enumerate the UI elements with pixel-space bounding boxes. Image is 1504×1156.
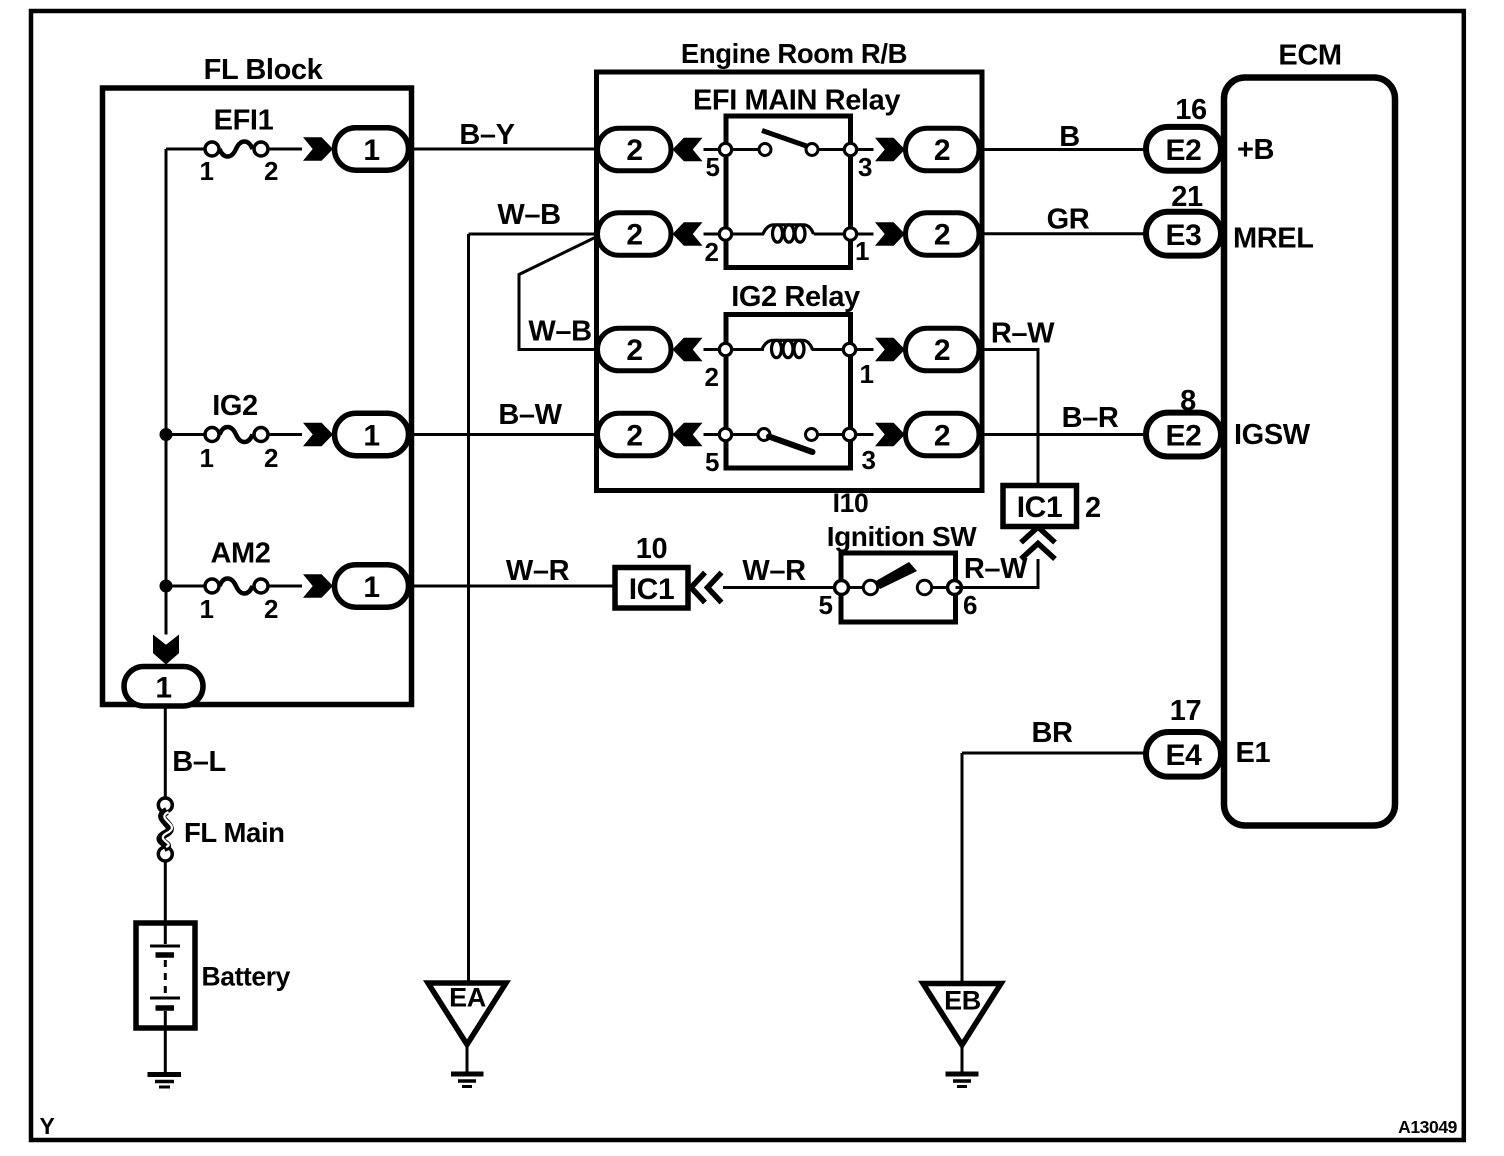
svg-text:6: 6: [963, 590, 977, 620]
connector 1 (AM2 row): [335, 565, 409, 607]
svg-text:2: 2: [264, 594, 278, 624]
svg-text:ECM: ECM: [1278, 40, 1341, 72]
wire W-R ignition switch to IC1: [723, 555, 841, 588]
connector 2 (row4 left): [598, 413, 672, 456]
svg-text:IC1: IC1: [1017, 491, 1063, 524]
svg-text:2: 2: [704, 237, 718, 267]
svg-text:5: 5: [705, 152, 719, 182]
wire row1 left pin: [704, 148, 726, 151]
wire row3 right pin: [855, 348, 874, 351]
connector E3 pin 21: [1146, 181, 1221, 256]
node label Y: [40, 1113, 55, 1139]
svg-text:5: 5: [705, 447, 719, 477]
svg-text:EFI MAIN Relay: EFI MAIN Relay: [693, 85, 900, 117]
wire R-W ignition to IC1 pin 2: [956, 553, 1039, 588]
IG2 relay contact pins 5-3: [705, 428, 876, 477]
fuse EFI1: [166, 105, 302, 187]
svg-text:B–R: B–R: [1062, 402, 1119, 434]
ignition switch SW1: [818, 521, 977, 622]
wire battery to ground: [164, 1028, 167, 1072]
pin name MREL: [1233, 223, 1314, 255]
ECM box: [1224, 40, 1395, 826]
arrow into connector 1 (IG2): [303, 423, 333, 446]
svg-text:E4: E4: [1166, 739, 1203, 772]
svg-text:21: 21: [1171, 181, 1203, 213]
svg-text:1: 1: [363, 420, 379, 453]
connector E2 pin 8: [1146, 385, 1221, 457]
connector 2 (row3 right): [906, 328, 980, 371]
svg-text:BR: BR: [1031, 717, 1073, 749]
svg-text:FL Block: FL Block: [204, 54, 324, 86]
svg-text:1: 1: [155, 672, 171, 705]
node label A13049: [1398, 1117, 1458, 1137]
node junction AM2: [160, 580, 173, 593]
svg-text:1: 1: [199, 156, 213, 186]
junction connector IC1 pin 10: [615, 533, 688, 608]
svg-text:1: 1: [363, 134, 379, 167]
wire B-Y: [409, 119, 598, 151]
svg-text:16: 16: [1175, 94, 1207, 126]
svg-text:A13049: A13049: [1398, 1117, 1458, 1137]
ground EB: [923, 984, 1001, 1087]
svg-text:B–Y: B–Y: [459, 119, 514, 151]
connector 1 (EFI1 row): [335, 128, 409, 170]
svg-text:IC1: IC1: [629, 573, 675, 606]
wire BR to EB: [962, 717, 1146, 984]
svg-text:Y: Y: [40, 1113, 55, 1139]
wire B-W: [409, 399, 598, 435]
wire row2 left pin: [704, 233, 726, 236]
connector E4 pin 17: [1146, 695, 1221, 777]
svg-text:2: 2: [704, 362, 718, 392]
svg-text:E2: E2: [1166, 134, 1202, 167]
svg-text:IG2: IG2: [212, 390, 258, 422]
wire FL Main to battery: [164, 861, 167, 923]
arrow into connector 2 (row2 right): [875, 222, 905, 245]
connector 1 (IG2 row): [335, 413, 409, 455]
ground EA: [428, 983, 506, 1087]
IG2 relay coil pins 2-1: [704, 340, 873, 392]
svg-text:+B: +B: [1237, 134, 1274, 166]
svg-text:W–R: W–R: [742, 555, 806, 587]
wire B-L: [165, 706, 225, 798]
wire row1 right pin: [856, 148, 874, 151]
arrow into connector 1 (EFI1): [303, 137, 333, 160]
node junction IG2: [160, 428, 173, 441]
wire GR: [979, 204, 1146, 236]
connector 2 (row1 right): [906, 128, 980, 171]
FL Block box: [103, 54, 412, 705]
svg-text:17: 17: [1170, 695, 1201, 727]
svg-text:W–B: W–B: [497, 199, 560, 231]
connector 1 (battery feed): [124, 667, 203, 707]
arrow chevrons into IC1 pin 2: [1021, 527, 1055, 559]
arrow into connector 2 (row1 left): [673, 138, 703, 161]
fuse IG2: [166, 390, 302, 473]
svg-text:5: 5: [818, 590, 832, 620]
svg-text:FL Main: FL Main: [184, 817, 285, 848]
wire FL bus vertical: [165, 149, 168, 635]
fuse AM2: [166, 538, 302, 625]
svg-text:EB: EB: [944, 986, 981, 1016]
svg-text:MREL: MREL: [1233, 223, 1314, 255]
svg-text:B: B: [1059, 121, 1080, 153]
svg-text:2: 2: [626, 420, 642, 453]
svg-text:Engine Room R/B: Engine Room R/B: [681, 38, 907, 69]
connector 2 (row1 left): [598, 128, 672, 171]
EFI MAIN relay coil pins 2-1: [704, 225, 869, 267]
arrow into connector 2 (row1 right): [875, 138, 905, 161]
pin name E1: [1236, 737, 1271, 769]
wire row4 right pin: [855, 433, 874, 436]
junction connector IC1 pin 2: [1003, 486, 1101, 527]
svg-text:B–L: B–L: [172, 746, 226, 778]
wire B-R: [979, 402, 1146, 435]
wire row3 left pin: [704, 348, 726, 351]
svg-text:B–W: B–W: [498, 399, 562, 431]
wire B: [979, 121, 1146, 153]
pin name +B: [1237, 134, 1274, 166]
svg-text:R–W: R–W: [964, 553, 1028, 585]
arrow into connector 2 (row2 left): [673, 222, 703, 245]
svg-text:EFI1: EFI1: [214, 105, 274, 137]
svg-text:1: 1: [855, 236, 869, 266]
wire row4 left pin: [704, 433, 726, 436]
svg-text:E3: E3: [1166, 219, 1202, 252]
EFI MAIN Relay box: [693, 85, 900, 268]
wire W-B link row2 to row3: [519, 237, 598, 350]
fusible link FL Main: [158, 798, 284, 861]
svg-text:8: 8: [1180, 385, 1196, 417]
connector E2 pin 16: [1146, 94, 1221, 171]
svg-text:3: 3: [858, 152, 872, 182]
EFI MAIN relay contact pins 5-3: [705, 131, 872, 183]
svg-text:R–W: R–W: [991, 318, 1055, 350]
svg-text:Battery: Battery: [202, 962, 291, 992]
connector 2 (row3 left): [598, 328, 672, 371]
wire W-R from AM2 to IC1: [409, 555, 616, 587]
svg-text:2: 2: [626, 219, 642, 252]
connector 2 (row2 left): [598, 213, 672, 256]
svg-text:W–R: W–R: [506, 555, 570, 587]
svg-text:IG2 Relay: IG2 Relay: [731, 281, 860, 313]
arrow into connector 2 (row4 left): [673, 423, 703, 446]
svg-text:2: 2: [934, 134, 950, 167]
svg-text:1: 1: [199, 443, 213, 473]
wire row2 right pin: [856, 233, 874, 236]
wire W-B to EA: [469, 199, 598, 983]
svg-text:1: 1: [859, 359, 873, 389]
svg-text:3: 3: [861, 445, 875, 475]
svg-text:Ignition SW: Ignition SW: [827, 521, 978, 552]
arrow into connector 2 (row4 right): [875, 423, 905, 446]
svg-text:2: 2: [934, 219, 950, 252]
arrow into connector 1 (AM2): [303, 574, 333, 597]
pin name IGSW: [1234, 419, 1311, 451]
svg-text:E2: E2: [1166, 420, 1202, 453]
Engine Room R/B box: [597, 38, 983, 518]
svg-text:2: 2: [1085, 492, 1101, 524]
svg-text:2: 2: [934, 420, 950, 453]
svg-text:E1: E1: [1236, 737, 1271, 769]
svg-text:IGSW: IGSW: [1234, 419, 1311, 451]
svg-text:AM2: AM2: [210, 538, 270, 570]
svg-text:I10: I10: [833, 488, 869, 518]
svg-text:2: 2: [626, 134, 642, 167]
arrow into connector 2 (row3 left): [673, 338, 703, 361]
svg-text:2: 2: [264, 443, 278, 473]
svg-text:1: 1: [199, 594, 213, 624]
battery: [136, 923, 291, 1028]
svg-text:EA: EA: [449, 983, 486, 1013]
connector 2 (row2 right): [906, 213, 980, 256]
connector 2 (row4 right): [906, 413, 980, 456]
svg-text:1: 1: [363, 571, 379, 604]
arrow into connector 2 (row3 right): [875, 338, 905, 361]
svg-text:2: 2: [626, 334, 642, 367]
arrow down to battery connector: [153, 635, 179, 665]
ground (battery): [148, 1075, 182, 1088]
svg-text:10: 10: [636, 533, 667, 565]
wire R-W to IC1: [979, 318, 1055, 486]
IG2 Relay box: [726, 281, 860, 468]
svg-text:2: 2: [934, 334, 950, 367]
svg-text:W–B: W–B: [528, 316, 591, 348]
svg-text:GR: GR: [1047, 204, 1090, 236]
svg-text:2: 2: [264, 156, 278, 186]
arrow chevrons into IC1 pin 10: [691, 573, 722, 603]
